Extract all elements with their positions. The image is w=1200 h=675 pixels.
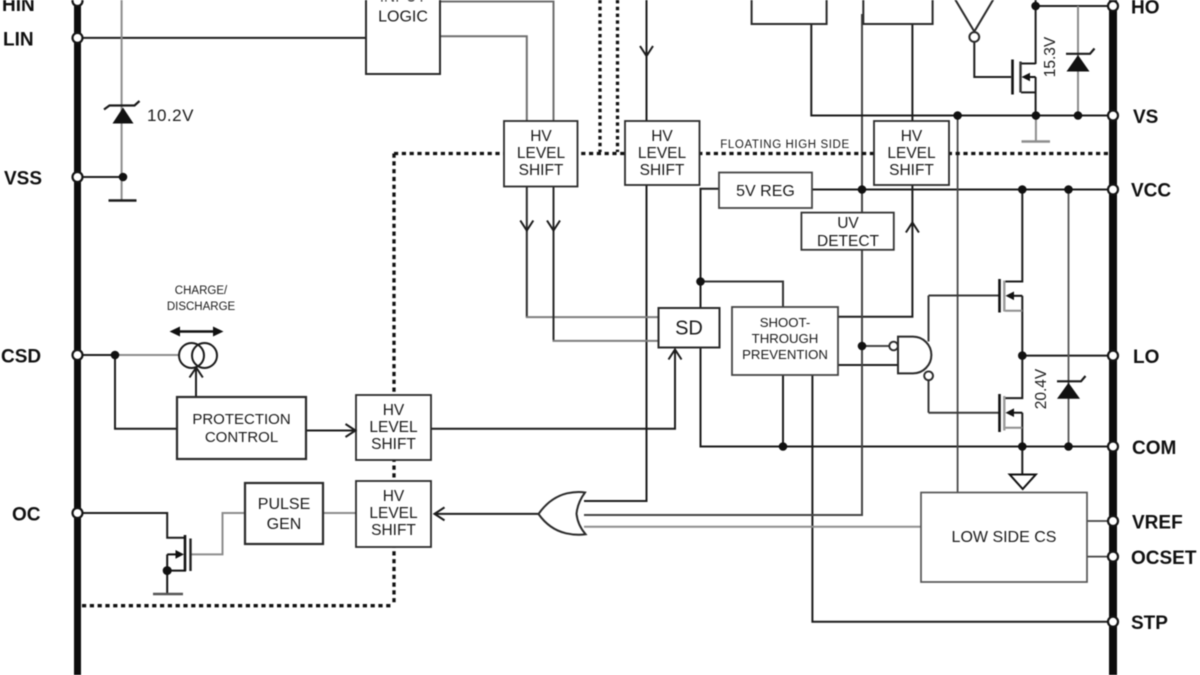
node dot LO xyxy=(1018,351,1027,360)
svg-text:LEVEL: LEVEL xyxy=(517,145,566,162)
node dot VS/Q2 xyxy=(1032,111,1041,120)
block INPUT LOGIC xyxy=(366,0,440,74)
svg-text:CONTROL: CONTROL xyxy=(205,429,278,446)
wire NAND output net to lower gate line xyxy=(928,378,930,413)
wire PROTECTION CONTROL output arrow to HV LEVEL SHIFT U5 xyxy=(306,430,354,432)
inverter output bubble xyxy=(969,32,979,42)
wire LO node to LO pin xyxy=(1022,355,1109,357)
svg-text:INPUT: INPUT xyxy=(380,0,427,6)
NAND output bubble xyxy=(924,371,933,380)
wire LO node down to Q4 drain xyxy=(1005,356,1023,399)
wire VCC rail from 5V REG to VCC pin xyxy=(812,189,1109,191)
wire inverter output to MOSFET Q2 gate xyxy=(974,42,1011,77)
node dot VS/zener D2 xyxy=(1074,111,1083,120)
svg-text:LIN: LIN xyxy=(3,30,34,51)
svg-text:FLOATING HIGH SIDE: FLOATING HIGH SIDE xyxy=(720,139,849,151)
node dot VCC/UV xyxy=(858,185,867,194)
svg-text:VREF: VREF xyxy=(1132,513,1183,534)
wire HV LEVEL SHIFT U2 output down to OR gate top input xyxy=(584,185,647,501)
node dot VCC/Q3 xyxy=(1018,185,1027,194)
node dot HO xyxy=(1031,2,1040,11)
arrowhead down on wire into HV LEVEL SHIFT U2 xyxy=(640,46,653,56)
wire Q1 drain to PULSE GEN xyxy=(191,513,245,554)
wire SHOOT-THROUGH right to HV LEVEL SHIFT U3 (arrow up) xyxy=(838,185,912,317)
node dot NAND input xyxy=(858,342,867,351)
svg-text:SHOOT-: SHOOT- xyxy=(760,315,811,330)
svg-text:VCC: VCC xyxy=(1131,181,1171,202)
node dot VCC/zener D3 xyxy=(1064,185,1073,194)
wire NAND output net to upper gate line xyxy=(928,296,930,342)
svg-text:CHARGE/: CHARGE/ xyxy=(175,285,228,297)
svg-text:HV: HV xyxy=(651,128,673,145)
gate OR G1 (mirrored, output left) xyxy=(539,492,586,535)
wire 5V REG output to SD top xyxy=(701,189,720,308)
svg-text:GEN: GEN xyxy=(267,516,302,533)
svg-text:5V REG: 5V REG xyxy=(736,183,795,200)
svg-text:SD: SD xyxy=(675,318,703,340)
svg-text:DETECT: DETECT xyxy=(817,233,880,250)
block top box B (cropped) xyxy=(863,0,932,24)
wire zener D2 15.3V branch HO to VS xyxy=(1077,6,1079,116)
svg-text:OC: OC xyxy=(12,505,41,526)
svg-text:STP: STP xyxy=(1131,613,1168,634)
block top box A (cropped) xyxy=(752,0,827,24)
wire Q4 source/body down to COM node xyxy=(1021,413,1023,447)
wire VS node to floating ground T-bar xyxy=(1035,116,1037,141)
svg-text:15.3V: 15.3V xyxy=(1042,36,1059,77)
pin LIN xyxy=(73,33,83,43)
arrowhead up into current source xyxy=(190,368,203,378)
zener D1 10.2V symbol xyxy=(104,101,140,110)
dashed boundary vertical top 2 xyxy=(616,0,619,152)
wire PULSE GEN to HV LEVEL SHIFT U4 xyxy=(323,512,356,514)
block SHOOT-THROUGH PREVENTION xyxy=(732,307,838,375)
block HV LEVEL SHIFT U1 xyxy=(504,121,578,187)
wire VS node down to LOW SIDE CS xyxy=(957,116,959,493)
gate NAND G2 xyxy=(898,337,931,374)
arrowhead up into SD bottom xyxy=(669,350,682,360)
wire LIN to INPUT LOGIC xyxy=(81,37,366,39)
ground Q1 source T-bar xyxy=(153,593,183,596)
wire HIN zener branch (vertical, HIN net to VSS) xyxy=(121,0,123,200)
svg-text:COM: COM xyxy=(1132,438,1176,459)
arrowhead down on HV LEVEL SHIFT U1 output A xyxy=(520,221,533,231)
wire INPUT LOGIC out B to HV LEVEL SHIFT U1 xyxy=(440,36,527,121)
wire COM node stub to ground triangle xyxy=(1021,447,1023,475)
svg-text:VS: VS xyxy=(1133,107,1158,128)
wire from top into HV LEVEL SHIFT U2 (arrow down) xyxy=(646,0,648,121)
node dot COM/zener D3 xyxy=(1064,442,1073,451)
wire HO net vertical and to HO pin xyxy=(1035,0,1037,64)
transistor Q2 (HO clamp MOSFET) xyxy=(1011,60,1014,95)
ground VS T-bar xyxy=(1022,140,1051,143)
wire lower MOSFET Q4 gate line xyxy=(929,412,999,414)
arrowhead right into HV LEVEL SHIFT U5 xyxy=(346,424,356,437)
wire Q2 source/body rail to VS xyxy=(1035,77,1037,116)
dashed boundary bottom horizontal xyxy=(82,604,394,607)
NAND inverted input bubble xyxy=(889,342,898,351)
wire Q3 source/body down to LO node xyxy=(1021,296,1023,356)
svg-text:PREVENTION: PREVENTION xyxy=(742,347,828,362)
node dot VS/LOW SIDE CS xyxy=(953,111,962,120)
svg-text:PULSE: PULSE xyxy=(258,496,310,513)
wire SHOOT-THROUGH bottom 2 to STP pin xyxy=(812,375,1109,622)
block HV LEVEL SHIFT U5 xyxy=(356,395,431,460)
pin LO xyxy=(1108,351,1118,361)
node dot COM shoot-through xyxy=(779,442,788,451)
block PULSE GEN xyxy=(245,483,323,544)
svg-text:HO: HO xyxy=(1131,0,1160,19)
node dot CSD xyxy=(111,351,120,360)
arrowhead down on HV LEVEL SHIFT U1 output B xyxy=(547,221,560,231)
pin VS xyxy=(1108,111,1118,121)
svg-text:SHIFT: SHIFT xyxy=(371,436,416,453)
svg-text:SHIFT: SHIFT xyxy=(889,162,934,179)
wire Q2 drain rail to HO node xyxy=(1021,63,1036,65)
wire VSS pin to zener anode node xyxy=(81,176,123,178)
wire SHOOT-THROUGH right 2 to NAND input xyxy=(838,364,898,366)
svg-text:10.2V: 10.2V xyxy=(147,106,194,125)
svg-text:THROUGH: THROUGH xyxy=(752,331,819,346)
wire CSD node down to PROTECTION CONTROL input xyxy=(115,355,177,429)
wire CSD pin to node xyxy=(81,354,116,356)
svg-text:OCSET: OCSET xyxy=(1131,548,1197,569)
wire OC pin to MOSFET Q1 gate xyxy=(81,513,184,538)
IC right edge bar xyxy=(1109,0,1117,675)
pin COM xyxy=(1108,442,1118,452)
pin VREF xyxy=(1108,516,1118,526)
wire NAND inverted input stub xyxy=(862,345,890,347)
svg-text:LOGIC: LOGIC xyxy=(378,9,428,26)
svg-text:HV: HV xyxy=(901,128,923,145)
svg-text:LEVEL: LEVEL xyxy=(887,145,936,162)
svg-text:DISCHARGE: DISCHARGE xyxy=(167,301,236,313)
block SD xyxy=(659,308,720,348)
block LOW SIDE CS xyxy=(921,493,1087,583)
dashed floating-high-side boundary horizontal xyxy=(394,152,1109,155)
block HV LEVEL SHIFT U3 xyxy=(874,121,949,185)
svg-text:HV: HV xyxy=(383,488,405,505)
pin HO xyxy=(1108,1,1118,11)
pin VCC xyxy=(1108,185,1118,195)
svg-text:LEVEL: LEVEL xyxy=(369,505,418,522)
wire PROTECTION CONTROL up to current source control xyxy=(195,369,197,397)
ground COM triangle xyxy=(1010,475,1036,490)
svg-text:HIN: HIN xyxy=(2,0,35,16)
svg-text:HV: HV xyxy=(530,128,552,145)
ground VSS T-bar xyxy=(109,199,137,201)
svg-text:HV: HV xyxy=(383,402,405,419)
wire OR gate output arrow to HV LEVEL SHIFT U4 xyxy=(435,513,539,515)
gate inverter G3 (cropped top) xyxy=(953,0,997,32)
wire HV LEVEL SHIFT U5 output to SD block (arrow up) xyxy=(431,351,675,429)
node dot 5VREG/SD xyxy=(696,277,705,286)
wire box A down to VS rail xyxy=(811,14,1109,116)
wire LOW SIDE CS output to OR gate bottom input xyxy=(584,526,921,528)
svg-text:PROTECTION: PROTECTION xyxy=(192,411,290,428)
wire SD bottom to COM rail xyxy=(701,348,1110,447)
wire VCC node down to Q3 drain xyxy=(1005,190,1023,282)
IC left edge bar xyxy=(74,0,81,675)
node dot VSS-zener xyxy=(119,173,128,182)
svg-text:UV: UV xyxy=(837,215,859,232)
wire SHOOT-THROUGH bottom 1 to COM xyxy=(782,375,784,447)
current source CS1 (two circles) xyxy=(179,343,204,368)
block HV LEVEL SHIFT U2 xyxy=(625,121,700,185)
svg-text:LO: LO xyxy=(1133,347,1159,368)
svg-text:VSS: VSS xyxy=(4,169,42,190)
wire top box B down to HV LEVEL SHIFT U3 xyxy=(911,14,913,121)
wire HV LEVEL SHIFT U1 output B down to SD input 2 xyxy=(553,187,555,341)
wire 5V REG node to SHOOT-THROUGH PREVENTION top xyxy=(701,282,784,308)
wire HV LEVEL SHIFT U1 output A down to SD input 1 xyxy=(526,187,528,318)
pin VSS xyxy=(73,172,83,182)
transistor Q4 (LO low-side driver) xyxy=(998,394,1001,432)
charge/discharge double arrow xyxy=(176,330,217,333)
svg-text:SHIFT: SHIFT xyxy=(371,522,416,539)
pin CSD xyxy=(73,350,83,360)
svg-text:SHIFT: SHIFT xyxy=(519,162,564,179)
arrowhead up on wire into HV LEVEL SHIFT U3 xyxy=(906,223,919,233)
block PROTECTION CONTROL xyxy=(177,397,306,459)
wire LOW SIDE CS to VREF pin xyxy=(1087,520,1109,522)
wire node to current source CS1 xyxy=(115,354,180,356)
arrowhead left into HV LEVEL SHIFT U4 xyxy=(435,507,445,520)
wire INPUT LOGIC out A to HV LEVEL SHIFT U1 xyxy=(440,2,554,122)
pin STP xyxy=(1108,617,1118,627)
block HV LEVEL SHIFT U4 xyxy=(356,481,431,547)
zener D3 20.4V symbol xyxy=(1057,376,1086,381)
pin HIN xyxy=(73,0,83,6)
wire upper MOSFET Q3 gate line xyxy=(929,295,999,297)
node dot COM/Q4 xyxy=(1018,442,1027,451)
dashed boundary vertical left xyxy=(392,154,395,606)
svg-text:SHIFT: SHIFT xyxy=(640,162,685,179)
zener D2 15.3V symbol xyxy=(1066,49,1095,54)
wire zener D3 20.4V branch VCC to COM xyxy=(1068,190,1070,447)
wire VCC/UV node line from box B through UV DETECT to OR gate middle input xyxy=(584,14,862,515)
transistor Q3 (LO high-side driver) xyxy=(998,279,1001,313)
block 5V REG xyxy=(719,173,812,209)
svg-text:LOW SIDE CS: LOW SIDE CS xyxy=(952,529,1057,546)
pin OCSET xyxy=(1108,552,1118,562)
svg-text:CSD: CSD xyxy=(1,347,41,368)
svg-text:LEVEL: LEVEL xyxy=(638,145,687,162)
transistor Q1 (OC sense MOSFET) xyxy=(184,535,187,571)
svg-text:20.4V: 20.4V xyxy=(1033,368,1050,409)
block UV DETECT xyxy=(801,213,893,250)
dashed boundary vertical top 1 xyxy=(598,0,601,152)
pin OC xyxy=(73,508,83,518)
svg-text:LEVEL: LEVEL xyxy=(369,419,418,436)
wire LOW SIDE CS to OCSET pin xyxy=(1087,556,1109,558)
node dot Q1 source/body xyxy=(163,566,172,575)
